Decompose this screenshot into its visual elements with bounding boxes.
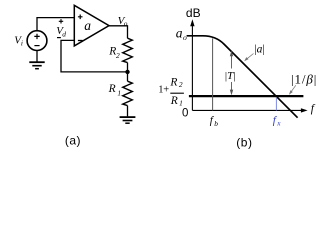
- svg-text:a: a: [84, 18, 91, 33]
- plus input marker: [78, 15, 83, 20]
- wire op-amp output to Vo node and down to R2: [109, 26, 128, 38]
- loop-gain arrow |T| lower segment: [231, 82, 233, 94]
- leader arrow to |a| curve: [246, 54, 254, 60]
- label ao: [176, 25, 187, 41]
- label Vo: [118, 15, 128, 28]
- x axis f: [192, 109, 301, 111]
- svg-text:x: x: [276, 119, 281, 128]
- 1/beta level line: [189, 95, 304, 97]
- op-amp A1: [74, 5, 109, 46]
- svg-text:d: d: [62, 30, 66, 39]
- label R1: [108, 83, 122, 98]
- svg-text:o: o: [124, 19, 128, 28]
- label fx (blue): [273, 114, 282, 127]
- gain curve |a| flat then -20dB/dec: [187, 36, 298, 118]
- svg-text:(b): (b): [236, 135, 252, 149]
- svg-text:b: b: [214, 119, 218, 128]
- fb guide line: [212, 38, 214, 110]
- resistor R2: [123, 38, 133, 62]
- resistor R1: [123, 81, 133, 105]
- svg-text:R: R: [170, 95, 178, 107]
- wire from source top to op-amp noninverting input: [37, 18, 74, 31]
- svg-text:i: i: [21, 39, 23, 48]
- label 1 + R2/R1: [158, 76, 184, 107]
- minus input marker: [78, 40, 83, 42]
- minus polarity mark inside source: [34, 45, 39, 47]
- svg-text:(a): (a): [65, 134, 81, 148]
- loop-gain arrow |T| upper segment: [231, 53, 233, 69]
- svg-text:R: R: [169, 76, 177, 88]
- svg-text:0: 0: [182, 108, 188, 120]
- label Vd with polarity: [56, 19, 66, 38]
- wire junction to R1: [127, 72, 129, 81]
- svg-text:|T|: |T|: [225, 70, 236, 82]
- voltage source VI: [27, 31, 47, 51]
- ground below source: [29, 62, 44, 68]
- label fb: [210, 114, 219, 128]
- plus polarity mark inside source: [34, 34, 39, 39]
- fx guide line (blue): [275, 97, 277, 110]
- wire from source bottom to ground: [36, 50, 38, 61]
- svg-text:dB: dB: [186, 6, 201, 20]
- svg-text:a: a: [176, 25, 183, 40]
- svg-text:|a|: |a|: [254, 43, 264, 55]
- wire R2 to junction: [127, 63, 129, 72]
- svg-text:2: 2: [116, 51, 120, 60]
- y axis dB: [191, 26, 193, 111]
- label Vi: [14, 34, 23, 47]
- svg-text:1: 1: [179, 99, 183, 108]
- label R2: [108, 46, 120, 61]
- svg-text:2: 2: [179, 80, 183, 89]
- svg-text:|1/β|: |1/β|: [291, 71, 317, 86]
- svg-text:o: o: [183, 33, 187, 42]
- svg-text:1: 1: [117, 88, 121, 97]
- ground below R1: [120, 117, 136, 123]
- svg-text:R: R: [108, 83, 116, 95]
- junction node dot: [125, 70, 129, 74]
- leader arrow to 1/beta line: [291, 85, 296, 92]
- wire R1 to ground: [127, 106, 129, 117]
- svg-text:+: +: [163, 85, 169, 96]
- wire inverting input to feedback node: [61, 40, 128, 72]
